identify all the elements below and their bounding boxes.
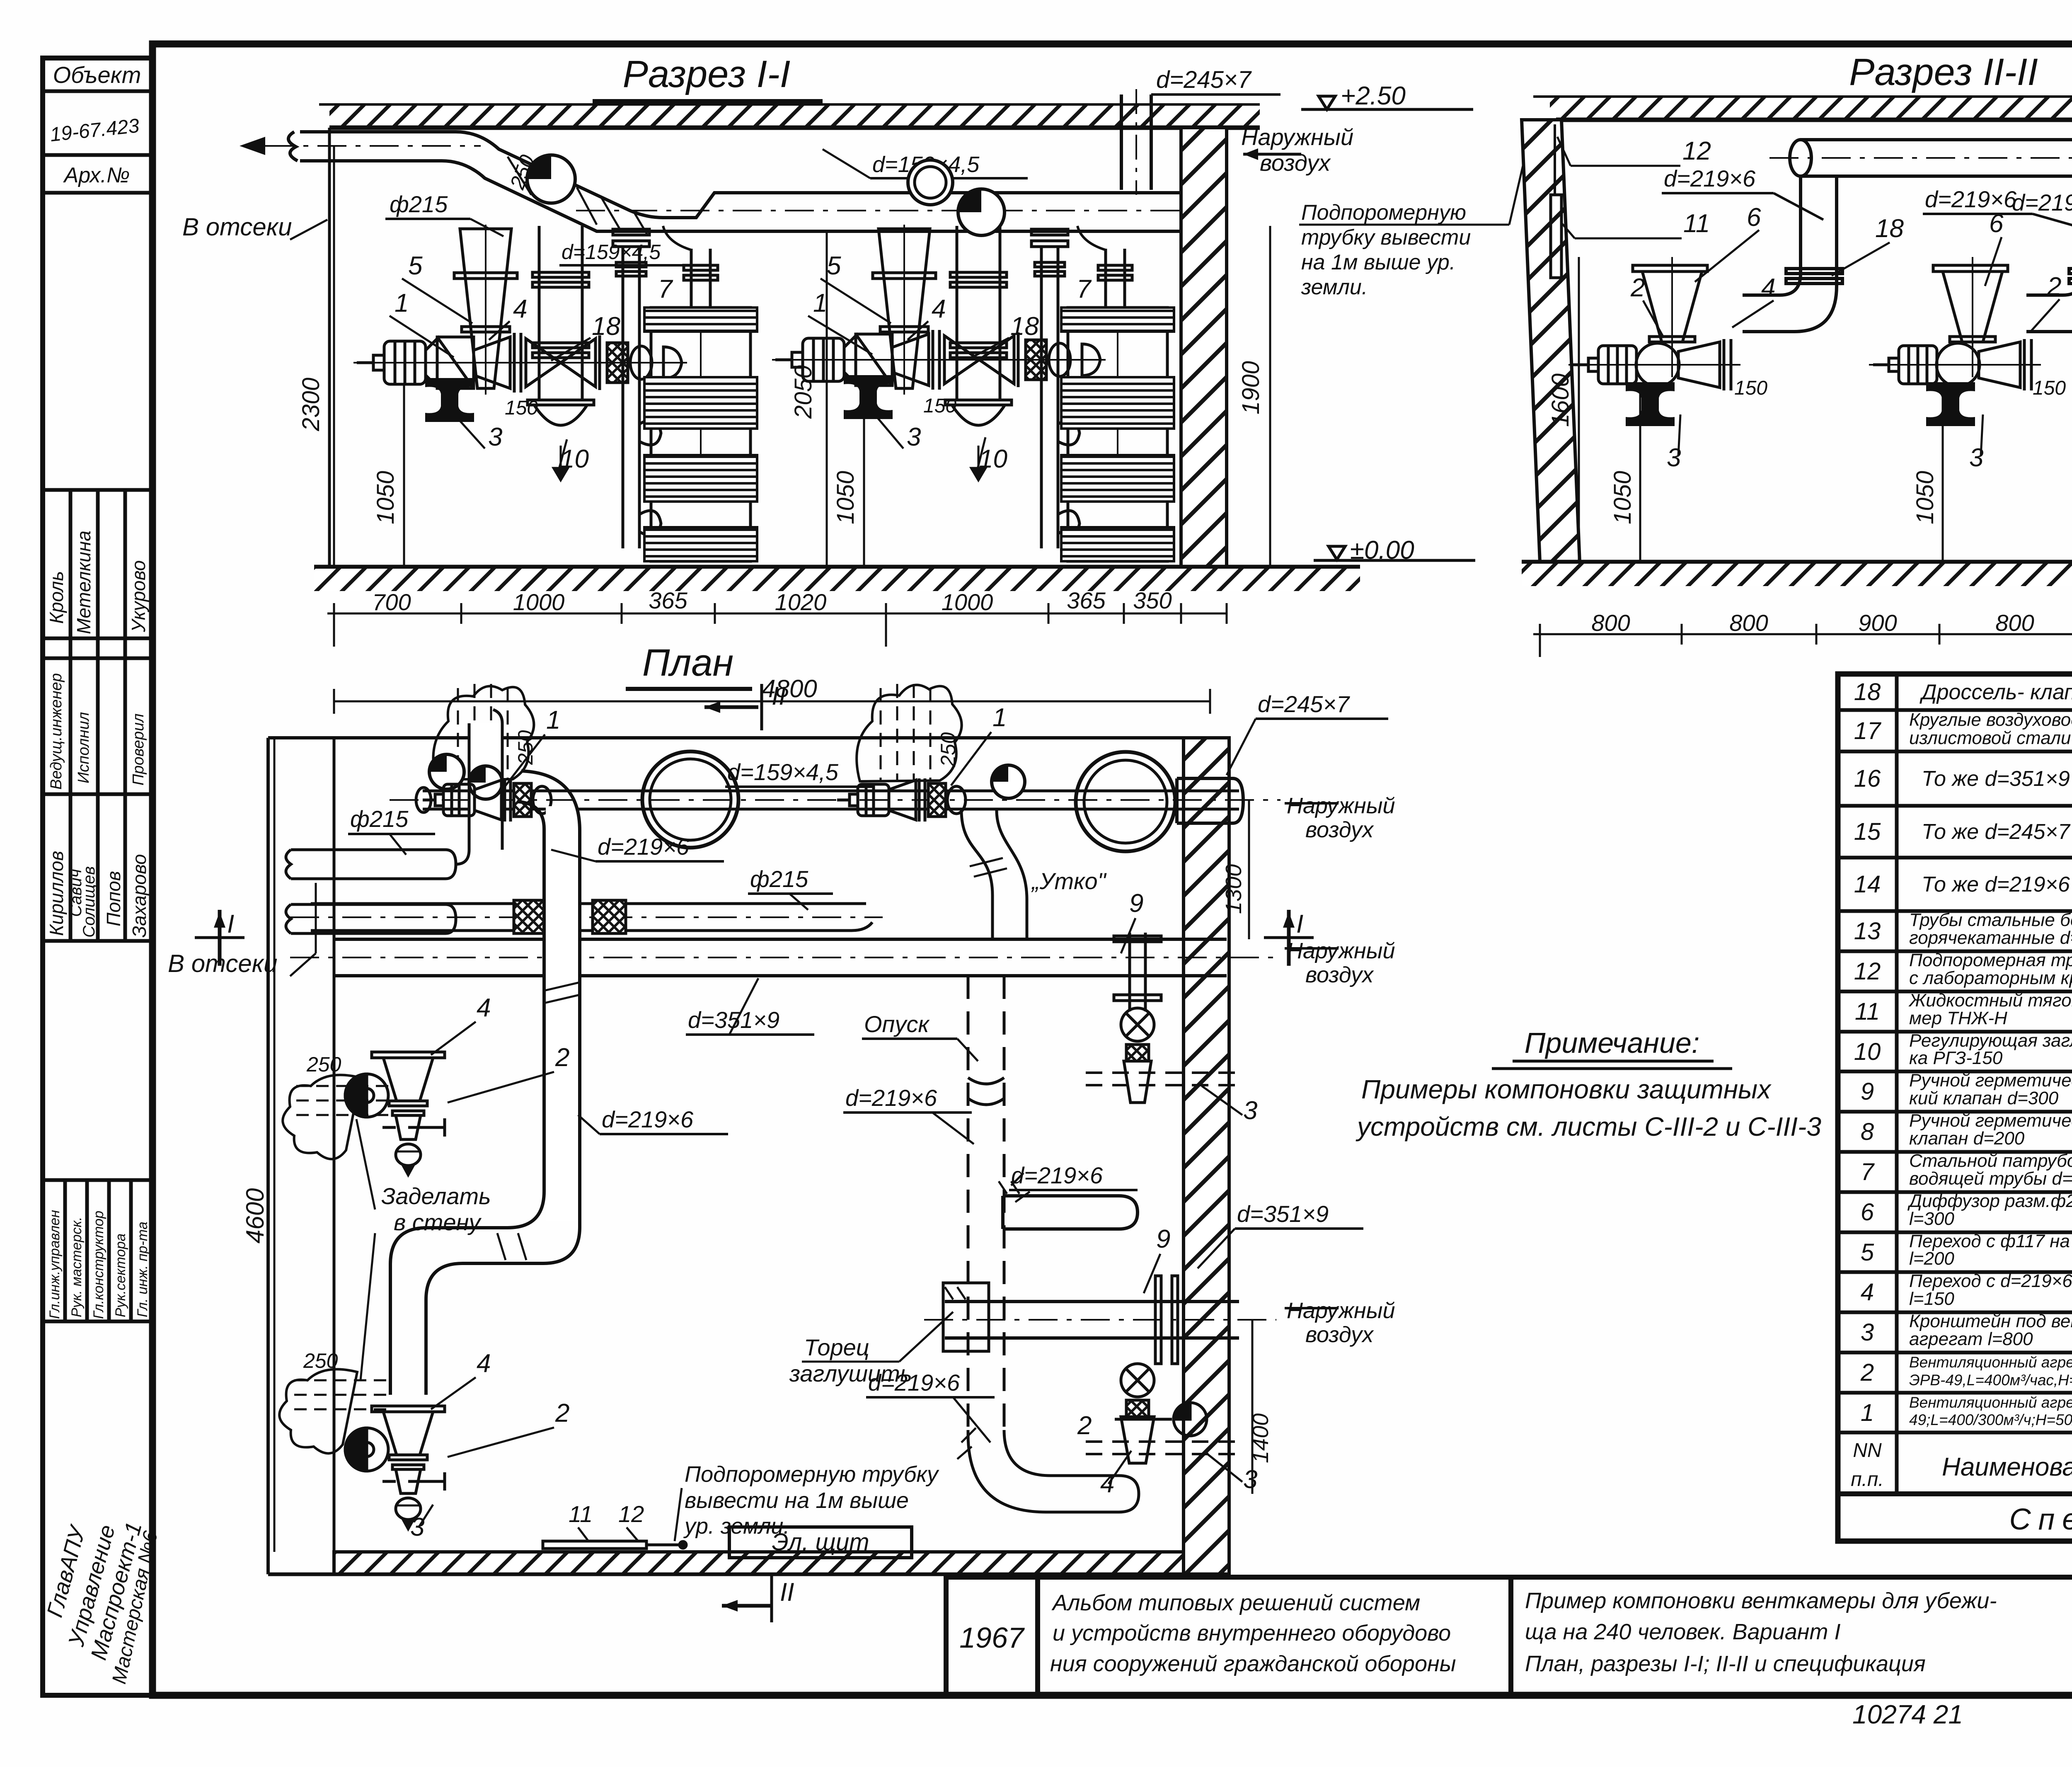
svg-text:700: 700 <box>372 589 411 615</box>
svg-text:Примечание:: Примечание: <box>1525 1027 1700 1059</box>
svg-text:d=219×6: d=219×6 <box>598 834 690 860</box>
svg-text:800: 800 <box>1591 610 1630 636</box>
svg-text:150: 150 <box>2033 377 2066 399</box>
svg-text:ф215: ф215 <box>350 806 409 832</box>
muffler circle 2 <box>958 189 1005 235</box>
Наружный воздух labels plan <box>1287 793 1395 1347</box>
diameter labels II-II <box>1664 67 2072 265</box>
pipes to compartments (left) <box>286 850 456 933</box>
svg-text:1050: 1050 <box>1912 471 1939 524</box>
plan fan lower-left <box>345 1406 445 1529</box>
svg-text:7: 7 <box>658 275 673 303</box>
svg-text:365: 365 <box>1067 587 1106 613</box>
svg-text:1050: 1050 <box>1609 471 1636 524</box>
svg-text:17: 17 <box>1854 717 1882 744</box>
svg-text:6: 6 <box>1861 1199 1874 1226</box>
svg-text:I: I <box>1296 910 1303 938</box>
section II-II floor <box>1522 560 2072 565</box>
svg-text:4: 4 <box>1761 274 1775 302</box>
wall tube device 11,12 <box>1551 195 1561 278</box>
svg-text:Исполнил: Исполнил <box>75 712 92 783</box>
svg-text:1020: 1020 <box>775 589 827 615</box>
left U duct vertical <box>546 806 578 1221</box>
section marker II bottom <box>722 1604 772 1608</box>
svg-text:150: 150 <box>505 397 538 419</box>
svg-text:излистовой стали фдо335: излистовой стали фдо335 <box>1909 728 2072 748</box>
svg-text:в стену: в стену <box>394 1209 482 1235</box>
svg-text:Торец: Торец <box>804 1334 869 1360</box>
svg-text:d=159×4,5: d=159×4,5 <box>562 240 661 264</box>
svg-text:на 1м выше ур.: на 1м выше ур. <box>1301 250 1455 274</box>
labels II-II <box>1630 203 2072 472</box>
svg-text:Наружный: Наружный <box>1287 938 1395 963</box>
svg-text:1600: 1600 <box>1547 373 1574 427</box>
specification table grid <box>1838 674 2072 1541</box>
svg-text:Арх.№: Арх.№ <box>63 163 130 187</box>
svg-text:II: II <box>780 1578 794 1607</box>
svg-text:ЭРВ-49,L=400м³/час,Н=50мм.в.ст: ЭРВ-49,L=400м³/час,Н=50мм.в.ст. <box>1909 1372 2072 1389</box>
svg-text:18: 18 <box>592 312 620 341</box>
svg-text:Захарово: Захарово <box>128 854 150 938</box>
filter stacks <box>644 308 757 561</box>
svg-text:Кириллов: Кириллов <box>46 851 67 936</box>
train motor unit 1 <box>423 778 551 822</box>
svg-text:4600: 4600 <box>241 1188 269 1243</box>
right valve assembly upper (9) <box>1114 933 1161 1103</box>
svg-text:Кроль: Кроль <box>46 571 67 624</box>
svg-text:Вентиляционный агрегат: Вентиляционный агрегат <box>1909 1354 2072 1371</box>
svg-text:4800: 4800 <box>762 675 817 703</box>
svg-text:ща на 240 человек. Вариан: ща на 240 человек. Вариант I <box>1525 1619 1841 1644</box>
svg-text:Гл.конструктор: Гл.конструктор <box>91 1211 107 1319</box>
svg-text:1967: 1967 <box>959 1622 1025 1654</box>
big duct d=351x9 plan <box>290 939 1276 976</box>
stack top pipes <box>663 226 1132 308</box>
svg-text:2300: 2300 <box>298 378 324 431</box>
svg-text:11: 11 <box>1683 209 1710 238</box>
svg-text:План: План <box>642 642 733 684</box>
svg-text:План, разрезы I-I; II-II и спе: План, разрезы I-I; II-II и спецификация <box>1525 1651 1926 1676</box>
svg-text:Пример компоновки венткамеры д: Пример компоновки венткамеры для убежи- <box>1525 1588 1997 1613</box>
riser duct from opening to train and down to pipes <box>456 710 502 864</box>
elbow duct to fan 1 <box>1743 176 1842 332</box>
svg-text:d=245×7: d=245×7 <box>1258 691 1350 717</box>
section I-I right wall hatch <box>1181 128 1227 567</box>
svg-text:4: 4 <box>932 295 946 323</box>
svg-text:d=219×6: d=219×6 <box>602 1106 694 1132</box>
title block grid <box>946 1577 2072 1695</box>
svg-text:II: II <box>772 682 786 710</box>
short duct d=219x6 mid right <box>1003 1196 1138 1229</box>
svg-text:Альбом типовых решений систем: Альбом типовых решений систем <box>1051 1590 1420 1615</box>
train motor unit 2 <box>837 778 966 822</box>
train big circle 2 <box>1076 752 1175 851</box>
svg-text:водящей трубы d=159×4,5: водящей трубы d=159×4,5 <box>1909 1168 2072 1189</box>
svg-text:Жидкостный тягонапоро-: Жидкостный тягонапоро- <box>1908 990 2072 1011</box>
svg-text:Разрез II-II: Разрез II-II <box>1849 51 2038 93</box>
svg-text:1400: 1400 <box>1248 1413 1273 1463</box>
svg-text:l=300: l=300 <box>1909 1209 1954 1229</box>
svg-text:+2.50: +2.50 <box>1341 82 1406 110</box>
svg-text:3: 3 <box>410 1513 424 1542</box>
svg-text:900: 900 <box>1858 610 1897 636</box>
section I-I left wall line <box>328 128 331 567</box>
vertical dimensions section I-I <box>334 146 1270 567</box>
svg-text:18: 18 <box>1010 312 1039 341</box>
svg-text:d=219×6: d=219×6 <box>1011 1162 1103 1188</box>
svg-text:В отсеки: В отсеки <box>182 213 292 241</box>
svg-text:Ручной герметичес-: Ручной герметичес- <box>1909 1070 2072 1091</box>
svg-text:вывести на 1м выше: вывести на 1м выше <box>685 1488 909 1513</box>
svg-text:Метелкина: Метелкина <box>73 531 94 634</box>
svg-text:Гл. инж. пр-та: Гл. инж. пр-та <box>135 1222 150 1317</box>
svg-text:клапан d=200: клапан d=200 <box>1909 1128 2025 1149</box>
svg-text:Примеры компоновки защитных: Примеры компоновки защитных <box>1361 1074 1772 1104</box>
svg-text:365: 365 <box>649 587 687 613</box>
svg-text:Попов: Попов <box>103 871 124 926</box>
svg-text:250: 250 <box>937 732 960 767</box>
svg-text:Наружный: Наружный <box>1287 793 1395 818</box>
svg-text:земли.: земли. <box>1301 275 1368 299</box>
svg-text:I: I <box>227 910 234 938</box>
svg-text:4: 4 <box>477 994 491 1022</box>
svg-text:Рук. мастерск.: Рук. мастерск. <box>69 1217 85 1317</box>
electric panel <box>729 1527 912 1558</box>
svg-text:Подпоромерная трубка d=15: Подпоромерная трубка d=15 <box>1909 950 2072 970</box>
rotated names band 1 <box>46 531 149 634</box>
train big circle 1 <box>642 751 738 848</box>
cones item5 <box>454 225 517 395</box>
svg-text:Подпоромерную: Подпоромерную <box>1301 201 1466 225</box>
svg-text:Дроссель- клапан: Дроссель- клапан <box>1920 680 2072 704</box>
svg-text:„Утко": „Утко" <box>1031 868 1107 894</box>
svg-text:3: 3 <box>907 423 921 451</box>
fan unit II-2 <box>1869 257 2041 426</box>
svg-text:1000: 1000 <box>513 589 565 615</box>
svg-text:Опуск: Опуск <box>864 1011 930 1037</box>
svg-text:5: 5 <box>827 252 841 280</box>
level mark +2.50 <box>1319 96 1335 109</box>
svg-text:Гл.инж.управлен: Гл.инж.управлен <box>47 1210 63 1319</box>
svg-text:4: 4 <box>477 1349 491 1378</box>
svg-text:1300: 1300 <box>1221 864 1246 914</box>
rotated department cell <box>42 1520 162 1686</box>
svg-text:NN: NN <box>1853 1440 1882 1462</box>
svg-text:1: 1 <box>1861 1399 1874 1426</box>
top pipe train d=159x4.5 <box>390 791 1280 809</box>
bottom dimension line II-II <box>1533 633 2072 635</box>
svg-text:800: 800 <box>1995 610 2034 636</box>
svg-text:7: 7 <box>1077 275 1092 303</box>
riser d=245x7 through ceiling <box>1121 89 1151 195</box>
svg-text:Переход с d=219×6 на ф27: Переход с d=219×6 на ф27 <box>1909 1271 2072 1291</box>
note Примечание <box>1356 1027 1821 1142</box>
svg-text:14: 14 <box>1854 871 1881 898</box>
svg-text:d=219×6: d=219×6 <box>845 1085 937 1111</box>
svg-text:6: 6 <box>1747 203 1761 232</box>
svg-text:воздух: воздух <box>1305 962 1374 987</box>
svg-text:трубку вывести: трубку вывести <box>1301 225 1471 250</box>
svg-text:с лабораторным краном: с лабораторным краном <box>1909 968 2072 988</box>
title block texts <box>959 1586 2072 1729</box>
elbow circle pair on duct A <box>908 160 953 205</box>
svg-text:Наружный: Наружный <box>1241 124 1353 150</box>
svg-text:Объект: Объект <box>53 62 141 88</box>
svg-text:То же d=351×9: То же d=351×9 <box>1922 767 2070 791</box>
svg-text:Кронштейн под вент-: Кронштейн под вент- <box>1909 1311 2072 1331</box>
svg-text:Эл. щит: Эл. щит <box>772 1529 869 1556</box>
left column header texts <box>49 62 141 187</box>
svg-text:1: 1 <box>546 706 560 734</box>
svg-text:1050: 1050 <box>372 471 399 524</box>
dim 4600 left <box>274 738 276 1552</box>
svg-text:Подпоромерную трубку: Подпоромерную трубку <box>685 1462 939 1487</box>
rotated names band 3 <box>46 851 150 938</box>
svg-text:18: 18 <box>1854 679 1881 705</box>
svg-text:3: 3 <box>488 423 502 451</box>
svg-text:12: 12 <box>618 1501 644 1527</box>
svg-text:4: 4 <box>1100 1469 1114 1498</box>
svg-text:Наружный: Наружный <box>1287 1298 1395 1323</box>
svg-text:150: 150 <box>1734 377 1767 399</box>
svg-text:d=351×9: d=351×9 <box>688 1007 779 1033</box>
specification table header <box>1851 1437 2072 1536</box>
svg-text:ния сооружений гражданской обо: ния сооружений гражданской обороны <box>1050 1651 1456 1676</box>
level mark 0.00 <box>1329 546 1345 560</box>
pipes item7 <box>613 229 661 548</box>
bottom dimension line section I-I <box>327 613 1227 615</box>
svg-text:1: 1 <box>992 703 1007 732</box>
svg-text:9: 9 <box>1129 889 1143 918</box>
wall opening cloud top 1 <box>433 686 534 779</box>
svg-text:10274 21: 10274 21 <box>1852 1699 1963 1729</box>
svg-text:2: 2 <box>2047 272 2061 301</box>
svg-text:13: 13 <box>1854 918 1881 945</box>
dim 1300 right <box>1248 800 1250 939</box>
svg-text:1900: 1900 <box>1237 361 1264 414</box>
center drop duct dashed <box>968 976 1004 1430</box>
svg-text:1: 1 <box>813 289 827 318</box>
svg-text:d=219×6: d=219×6 <box>1925 186 2017 212</box>
fan unit II-1 <box>1569 257 1740 426</box>
muffler circle on diagonal <box>527 155 575 203</box>
svg-text:l=150: l=150 <box>1909 1289 1954 1309</box>
svg-text:10: 10 <box>1854 1038 1881 1065</box>
svg-text:250: 250 <box>306 1053 341 1076</box>
svg-text:5: 5 <box>1861 1239 1874 1266</box>
svg-text:12: 12 <box>1854 958 1881 985</box>
svg-text:l=200: l=200 <box>1909 1248 1954 1269</box>
svg-text:d=245×7: d=245×7 <box>1156 66 1252 93</box>
svg-text:4: 4 <box>1861 1279 1874 1306</box>
svg-text:Спецификация: Спецификация <box>2009 1503 2072 1536</box>
svg-text:11: 11 <box>569 1501 593 1527</box>
svg-text:3: 3 <box>1243 1465 1257 1494</box>
section marker II top <box>704 705 758 709</box>
svg-text:2: 2 <box>555 1399 569 1428</box>
svg-text:2: 2 <box>1077 1411 1092 1440</box>
svg-text:кий клапан d=300: кий клапан d=300 <box>1909 1088 2059 1108</box>
main horizontal duct A <box>576 210 1189 211</box>
svg-text:Ручной герметический: Ручной герметический <box>1909 1110 2072 1131</box>
section II-II ceiling hatch <box>1550 97 2072 120</box>
elbow duct to fan 2 <box>2026 176 2072 332</box>
svg-text:Круглые воздуховоды: Круглые воздуховоды <box>1909 710 2072 730</box>
svg-text:Вентиляционный агрегат ФВА: Вентиляционный агрегат ФВА <box>1909 1394 2072 1411</box>
svg-text:Диффузор разм.ф215×ф300: Диффузор разм.ф215×ф300 <box>1907 1191 2072 1211</box>
svg-text:воздух: воздух <box>1305 817 1374 842</box>
svg-text:3: 3 <box>1243 1096 1257 1125</box>
part labels section I-I <box>395 252 1092 473</box>
train right big pipe d=245x7 <box>1177 778 1243 823</box>
svg-text:Заделать: Заделать <box>381 1183 491 1209</box>
section marker I left <box>195 936 244 939</box>
svg-text:16: 16 <box>1854 765 1881 792</box>
svg-text:и устройств внутреннего оборуд: и устройств внутреннего оборудово <box>1053 1621 1451 1646</box>
svg-text:1: 1 <box>395 289 409 318</box>
pipe ф215 horizontal mid <box>290 900 883 933</box>
svg-text:15: 15 <box>1854 818 1881 845</box>
svg-text:Разрез I-I: Разрез I-I <box>623 53 791 95</box>
rotated titles band 4 <box>47 1210 150 1319</box>
svg-text:Укурово: Укурово <box>128 560 149 633</box>
svg-text:мер ТНЖ-Н: мер ТНЖ-Н <box>1909 1008 2007 1028</box>
svg-text:5: 5 <box>408 252 423 280</box>
svg-text:Проверил: Проверил <box>130 713 147 785</box>
wall opening cloud top 2 <box>857 685 961 781</box>
svg-text:Ведущ.инженер: Ведущ.инженер <box>48 673 65 790</box>
svg-text:п.п.: п.п. <box>1851 1469 1884 1491</box>
svg-text:Солищев: Солищев <box>80 866 98 938</box>
valve 9 lower <box>1155 1276 1178 1364</box>
svg-text:12: 12 <box>1682 137 1711 165</box>
lower right fan cluster <box>1115 1364 1207 1463</box>
svg-text:1050: 1050 <box>832 471 859 524</box>
svg-text:ф215: ф215 <box>750 866 808 892</box>
svg-text:2050: 2050 <box>790 365 817 419</box>
svg-text:заглушить: заглушить <box>789 1360 912 1386</box>
svg-text:агрегат l=800: агрегат l=800 <box>1909 1329 2033 1349</box>
plan fan upper-left <box>345 1052 445 1175</box>
vertical dims II-II <box>1579 174 2072 562</box>
svg-text:Наименование: Наименование <box>1942 1453 2072 1481</box>
svg-text:800: 800 <box>1729 610 1768 636</box>
svg-text:Рук.сектора: Рук.сектора <box>113 1234 128 1317</box>
svg-text:8: 8 <box>1861 1118 1874 1145</box>
svg-text:150: 150 <box>923 395 956 417</box>
svg-text:49;L=400/300м³/ч;Н=50/80мм в.с: 49;L=400/300м³/ч;Н=50/80мм в.ст <box>1909 1411 2072 1428</box>
svg-text:d=159×4,5: d=159×4,5 <box>727 759 839 785</box>
svg-text:11: 11 <box>1855 998 1880 1025</box>
svg-text:d=351×9: d=351×9 <box>1237 1201 1329 1227</box>
duct to compartments (top left) <box>265 132 1181 231</box>
svg-text:350: 350 <box>1133 587 1172 613</box>
svg-text:В отсеки: В отсеки <box>168 950 277 977</box>
svg-text:d=219×6: d=219×6 <box>2012 189 2072 216</box>
risers item10 <box>528 226 594 480</box>
section I-I ceiling hatch <box>329 104 1260 128</box>
svg-text:устройств см. листы С-III-2 и: устройств см. листы С-III-2 и С-III-3 <box>1356 1112 1821 1142</box>
svg-text:9: 9 <box>1861 1078 1874 1105</box>
svg-text:ф215: ф215 <box>390 191 448 217</box>
svg-text:2: 2 <box>1860 1359 1874 1386</box>
svg-text:1000: 1000 <box>942 589 993 615</box>
top duct II-II <box>1769 140 2072 176</box>
svg-text:3: 3 <box>1861 1319 1874 1346</box>
svg-text:7: 7 <box>1861 1159 1875 1185</box>
svg-text:2: 2 <box>1630 274 1645 302</box>
specification table text <box>1854 679 2072 1430</box>
svg-text:9: 9 <box>1156 1225 1170 1253</box>
svg-text:ка РГЗ-150: ка РГЗ-150 <box>1909 1048 2003 1068</box>
svg-text:То же d=219×6: То же d=219×6 <box>1922 873 2070 897</box>
section II-II left wall hatch <box>1522 120 1580 562</box>
svg-text:18: 18 <box>1875 214 1904 243</box>
dim 1400 right <box>1251 1320 1254 1494</box>
svg-text:4: 4 <box>513 295 527 323</box>
hatch ticks on duct joints <box>497 982 580 1260</box>
right outlet duct lower through wall <box>924 1283 1276 1351</box>
svg-text:То же d=245×7: То же d=245×7 <box>1922 820 2071 844</box>
svg-text:d=219×6: d=219×6 <box>1664 165 1756 191</box>
dashed pipe through wall upper <box>1086 1073 1239 1085</box>
svg-text:250: 250 <box>303 1349 338 1372</box>
rotated titles band 2 <box>48 673 147 790</box>
svg-text:Стальной патрубок под-: Стальной патрубок под- <box>1909 1151 2072 1171</box>
diagonal duct hatch marks <box>508 157 647 235</box>
svg-text:горячекатанные d=159×4,5: горячекатанные d=159×4,5 <box>1909 928 2072 948</box>
left clouds <box>283 1075 361 1159</box>
svg-text:Трубы стальные бесшовные: Трубы стальные бесшовные <box>1909 910 2072 930</box>
plan room walls <box>268 738 1229 1574</box>
svg-text:2: 2 <box>555 1043 569 1072</box>
svg-text:воздух: воздух <box>1305 1322 1374 1347</box>
section marker I right <box>1264 936 1314 939</box>
left stamp column <box>43 58 152 1695</box>
fan units <box>353 333 687 393</box>
tube device bottom <box>543 1541 686 1549</box>
Утка S-piece <box>961 810 1027 939</box>
dim 4800 top <box>334 700 1210 703</box>
section I-I floor <box>314 565 1360 570</box>
